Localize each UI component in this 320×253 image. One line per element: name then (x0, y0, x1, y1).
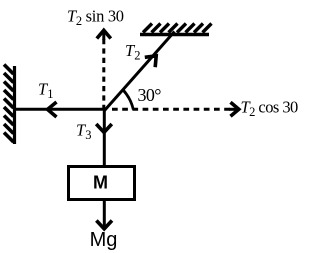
svg-text:T2 sin 30: T2 sin 30 (67, 7, 124, 29)
dashed vertical component line (T2 sin 30) (102, 39, 105, 108)
svg-text:M: M (93, 173, 108, 193)
ceiling (top right, hatched) (140, 24, 212, 35)
wire T2 (diagonal rope to ceiling) (105, 32, 175, 111)
wire T1 (horizontal rope from wall to junction) (14, 108, 106, 111)
block M (rectangle) (69, 167, 135, 200)
wire T3 (vertical rope from junction to block) (103, 108, 106, 166)
arrowhead T3 (points down) (96, 124, 112, 132)
wall (left, hatched) (4, 65, 15, 145)
arrowhead T2 sin 30 (points up) (97, 30, 111, 38)
arrowhead Mg (points down) (96, 221, 112, 229)
dashed horizontal component line (T2 cos 30) (112, 108, 232, 111)
svg-text:T2 cos 30: T2 cos 30 (241, 97, 299, 119)
svg-text:Mg: Mg (90, 229, 118, 251)
arrowhead T2 cos 30 (points right) (231, 102, 239, 116)
arrowhead T1 (points left) (48, 102, 57, 117)
arrowhead T2 (points up-right along rope) (145, 56, 156, 67)
angle arc (30 degrees) (123, 90, 134, 110)
wire Mg (below block) (103, 200, 106, 227)
svg-text:30°: 30° (138, 85, 162, 105)
